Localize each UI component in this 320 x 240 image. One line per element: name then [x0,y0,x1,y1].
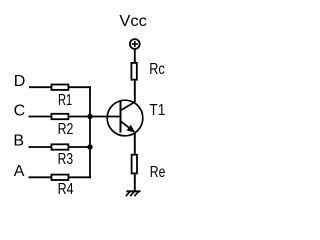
svg-text:R2: R2 [58,121,74,138]
svg-text:R1: R1 [58,92,72,109]
svg-text:Rc: Rc [149,61,165,78]
resistor Rc [131,63,136,80]
wire emitter to Re [134,132,136,154]
bus vertical wire [89,86,91,178]
junction node at C row [87,114,92,119]
wire B to R3 [29,146,52,148]
base bar [120,101,122,132]
wire D to R1 [29,86,52,88]
svg-text:B: B [13,133,24,150]
transistor body circle [107,100,143,136]
svg-text:Vcc: Vcc [119,13,146,30]
wire Re to ground [134,174,136,191]
wire Rc to collector [134,81,136,103]
wire A to R4 [29,176,52,178]
svg-text:D: D [14,73,26,90]
wire C to R2 [29,116,52,118]
resistor R4 [52,175,69,180]
power supply terminal (circle with plus) [130,39,140,49]
wire Vcc to Rc [134,50,136,63]
ground [126,190,140,192]
emitter lead diagonal with arrow [121,121,134,131]
svg-text:R3: R3 [58,151,74,168]
junction node at B row [87,144,92,149]
wire R1 to bus [68,86,91,88]
svg-text:T1: T1 [149,102,165,119]
transistor T1 [107,100,143,136]
svg-text:Re: Re [150,164,166,181]
wire R4 to bus [68,176,91,178]
collector lead diagonal [121,102,135,110]
resistor R1 [52,85,69,90]
svg-text:A: A [14,163,25,180]
resistor Re [132,155,137,174]
svg-text:C: C [14,102,26,119]
wire R2 to base (through bus) [68,116,120,118]
wire R3 to bus [68,146,90,148]
svg-text:R4: R4 [58,181,74,198]
resistor R2 [52,114,69,119]
resistor R3 [52,144,69,149]
